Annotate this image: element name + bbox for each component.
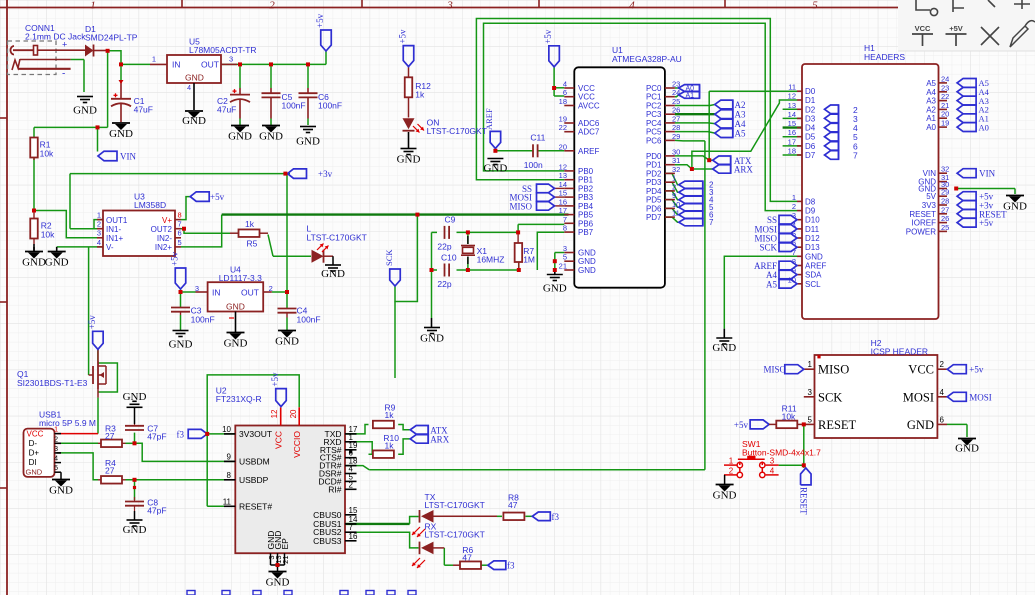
svg-text:18: 18 xyxy=(559,97,567,106)
svg-text:D6: D6 xyxy=(805,142,816,151)
svg-text:13: 13 xyxy=(559,171,567,180)
svg-text:D10: D10 xyxy=(805,216,820,225)
svg-text:11: 11 xyxy=(223,497,232,506)
svg-text:100nF: 100nF xyxy=(297,314,321,324)
svg-text:+5v: +5v xyxy=(969,365,984,375)
svg-text:OUT: OUT xyxy=(241,288,259,298)
svg-text:7: 7 xyxy=(709,218,714,227)
svg-text:LTST-C170GKT: LTST-C170GKT xyxy=(425,500,485,510)
svg-text:20: 20 xyxy=(289,409,298,418)
svg-text:4: 4 xyxy=(187,85,191,92)
svg-text:GND: GND xyxy=(275,336,299,348)
svg-text:HEADERS: HEADERS xyxy=(864,52,905,62)
svg-text:27: 27 xyxy=(105,466,115,476)
svg-text:VCC: VCC xyxy=(908,363,934,377)
svg-text:15: 15 xyxy=(788,119,796,128)
svg-text:R5: R5 xyxy=(247,239,258,249)
svg-text:21: 21 xyxy=(941,101,949,110)
svg-text:3V3: 3V3 xyxy=(922,201,937,210)
svg-text:17: 17 xyxy=(788,137,796,146)
svg-text:OUT1: OUT1 xyxy=(106,216,128,225)
svg-text:2: 2 xyxy=(269,0,275,12)
svg-text:+5v: +5v xyxy=(210,192,225,202)
svg-text:V+: V+ xyxy=(162,216,172,225)
svg-text:+5v: +5v xyxy=(979,218,994,228)
svg-text:D11: D11 xyxy=(805,225,820,234)
svg-text:31: 31 xyxy=(672,156,680,165)
svg-text:16: 16 xyxy=(559,197,567,206)
svg-text:A5: A5 xyxy=(926,79,936,88)
svg-text:VCC: VCC xyxy=(578,84,595,93)
svg-text:GND: GND xyxy=(578,257,596,266)
svg-text:1k: 1k xyxy=(385,410,395,420)
svg-text:IN1-: IN1- xyxy=(106,225,121,234)
svg-text:DI: DI xyxy=(29,458,37,467)
svg-text:AREF: AREF xyxy=(805,262,826,271)
svg-text:ICSP HEADER: ICSP HEADER xyxy=(871,347,928,357)
svg-text:MISO: MISO xyxy=(509,201,532,211)
svg-text:3: 3 xyxy=(54,446,58,453)
svg-text:+5v: +5v xyxy=(87,315,97,330)
svg-text:GND: GND xyxy=(296,136,320,148)
svg-text:26: 26 xyxy=(941,214,949,223)
svg-text:1k: 1k xyxy=(245,219,255,229)
svg-text:RESET: RESET xyxy=(799,487,809,515)
svg-text:3: 3 xyxy=(195,284,199,293)
svg-text:D+: D+ xyxy=(29,449,40,458)
svg-text:21: 21 xyxy=(559,262,567,271)
svg-text:VCCIO: VCCIO xyxy=(292,431,302,458)
svg-text:GND: GND xyxy=(578,266,596,275)
svg-text:PB2: PB2 xyxy=(578,184,594,193)
svg-text:GND: GND xyxy=(185,73,204,83)
svg-text:14: 14 xyxy=(788,110,796,119)
svg-text:GND: GND xyxy=(1003,201,1027,213)
svg-text:MOSI: MOSI xyxy=(969,392,992,402)
svg-text:100n: 100n xyxy=(524,160,543,170)
svg-text:PC1: PC1 xyxy=(646,93,662,102)
svg-text:29: 29 xyxy=(672,132,680,141)
svg-text:+5v: +5v xyxy=(270,372,280,387)
svg-text:1: 1 xyxy=(792,193,796,202)
svg-text:27: 27 xyxy=(941,205,949,214)
svg-text:4: 4 xyxy=(97,238,101,247)
svg-text:4: 4 xyxy=(940,388,945,397)
svg-text:4: 4 xyxy=(629,0,635,12)
svg-text:20: 20 xyxy=(559,142,567,151)
svg-text:D13: D13 xyxy=(805,243,820,252)
svg-text:PD0: PD0 xyxy=(646,152,662,161)
svg-text:PB7: PB7 xyxy=(578,228,594,237)
svg-text:C9: C9 xyxy=(445,215,456,225)
svg-text:GND: GND xyxy=(73,105,97,117)
svg-text:1: 1 xyxy=(808,360,813,369)
svg-text:GND: GND xyxy=(907,418,934,432)
svg-text:GND: GND xyxy=(266,577,290,589)
svg-text:RI#: RI# xyxy=(328,484,342,494)
svg-text:D0: D0 xyxy=(805,87,816,96)
svg-text:f3: f3 xyxy=(507,561,515,571)
svg-text:A5: A5 xyxy=(766,279,777,289)
svg-text:SCK: SCK xyxy=(818,390,842,404)
svg-text:ARX: ARX xyxy=(734,165,754,175)
svg-text:GND: GND xyxy=(955,443,979,455)
svg-text:47uF: 47uF xyxy=(217,105,236,115)
svg-text:IN2-: IN2- xyxy=(157,234,172,243)
svg-text:D4: D4 xyxy=(805,124,816,133)
svg-text:GND: GND xyxy=(169,339,193,351)
svg-text:V-: V- xyxy=(106,243,114,252)
svg-text:ADC7: ADC7 xyxy=(578,128,600,137)
svg-text:18: 18 xyxy=(788,147,796,156)
svg-text:8: 8 xyxy=(563,224,567,233)
svg-text:D3: D3 xyxy=(805,114,816,123)
svg-text:GND: GND xyxy=(182,115,206,127)
svg-text:GND: GND xyxy=(397,154,421,166)
svg-text:GND: GND xyxy=(483,163,507,175)
svg-text:1: 1 xyxy=(97,211,101,220)
svg-text:+5v: +5v xyxy=(543,29,553,44)
svg-text:27: 27 xyxy=(105,431,115,441)
svg-text:47uF: 47uF xyxy=(134,105,153,115)
svg-text:SCL: SCL xyxy=(805,280,821,289)
svg-text:SCK: SCK xyxy=(384,249,394,266)
svg-text:VIN: VIN xyxy=(979,169,995,179)
svg-text:GND: GND xyxy=(226,302,245,312)
svg-text:MISO: MISO xyxy=(818,363,849,377)
svg-text:21: 21 xyxy=(281,556,290,564)
svg-text:PD3: PD3 xyxy=(646,178,662,187)
svg-text:1k: 1k xyxy=(415,90,425,100)
svg-text:1: 1 xyxy=(729,457,734,466)
svg-text:4: 4 xyxy=(563,80,567,89)
svg-text:PC0: PC0 xyxy=(646,84,662,93)
svg-text:5: 5 xyxy=(54,465,58,472)
svg-text:PB3: PB3 xyxy=(578,193,594,202)
svg-text:IOREF: IOREF xyxy=(912,219,937,228)
svg-text:47pF: 47pF xyxy=(147,506,166,516)
svg-text:100nF: 100nF xyxy=(191,314,215,324)
svg-text:+5v: +5v xyxy=(170,251,180,266)
svg-text:2: 2 xyxy=(672,182,676,191)
svg-text:LTST-C170GKT: LTST-C170GKT xyxy=(307,233,367,243)
svg-text:4: 4 xyxy=(54,456,58,463)
svg-text:VCC: VCC xyxy=(27,430,44,439)
svg-text:PD6: PD6 xyxy=(646,204,662,213)
svg-text:15: 15 xyxy=(559,189,567,198)
svg-text:PD2: PD2 xyxy=(646,169,662,178)
svg-text:SI2301BDS-T1-E3: SI2301BDS-T1-E3 xyxy=(17,378,88,388)
svg-text:VCC: VCC xyxy=(274,431,284,449)
svg-text:+5v: +5v xyxy=(398,29,408,44)
svg-text:AVCC: AVCC xyxy=(578,102,600,111)
svg-text:3: 3 xyxy=(770,457,775,466)
svg-text:D1: D1 xyxy=(805,96,816,105)
svg-text:GND: GND xyxy=(228,131,252,143)
svg-text:5: 5 xyxy=(178,238,182,247)
svg-text:A2: A2 xyxy=(926,105,936,114)
svg-text:GND: GND xyxy=(123,524,147,536)
svg-text:32: 32 xyxy=(672,165,680,174)
svg-text:OUT2: OUT2 xyxy=(151,225,173,234)
svg-text:19: 19 xyxy=(941,119,949,128)
svg-text:100nF: 100nF xyxy=(282,101,306,111)
svg-text:14: 14 xyxy=(559,180,567,189)
svg-text:100nF: 100nF xyxy=(318,101,342,111)
svg-text:MOSI: MOSI xyxy=(903,390,934,404)
svg-text:USBDM: USBDM xyxy=(239,456,270,466)
svg-text:5: 5 xyxy=(812,0,818,12)
svg-text:RESET: RESET xyxy=(909,210,936,219)
svg-text:GND: GND xyxy=(22,257,46,269)
svg-text:GND: GND xyxy=(45,257,69,269)
svg-text:D2: D2 xyxy=(805,105,816,114)
svg-text:22p: 22p xyxy=(437,242,451,252)
svg-text:10k: 10k xyxy=(40,149,54,159)
svg-text:CBUS3: CBUS3 xyxy=(313,536,342,546)
svg-text:2: 2 xyxy=(269,284,273,293)
svg-text:GND: GND xyxy=(543,283,567,295)
svg-text:A4: A4 xyxy=(926,88,936,97)
svg-text:2: 2 xyxy=(940,360,945,369)
svg-text:22: 22 xyxy=(559,123,567,132)
svg-text:GND: GND xyxy=(578,249,596,258)
svg-text:1: 1 xyxy=(672,174,676,183)
svg-text:GND: GND xyxy=(259,131,283,143)
svg-text:22: 22 xyxy=(941,92,949,101)
svg-text:C11: C11 xyxy=(530,133,545,143)
svg-text:A1: A1 xyxy=(686,93,695,100)
svg-text:2: 2 xyxy=(97,220,101,229)
svg-text:OUT: OUT xyxy=(201,60,219,70)
svg-text:VCC: VCC xyxy=(578,93,595,102)
svg-text:VIN: VIN xyxy=(120,152,136,162)
svg-text:2: 2 xyxy=(792,202,796,211)
svg-text:A0: A0 xyxy=(979,122,989,132)
svg-text:3: 3 xyxy=(808,388,813,397)
svg-text:LTST-C170GKT: LTST-C170GKT xyxy=(427,126,487,136)
svg-text:GND: GND xyxy=(712,342,736,354)
svg-text:6: 6 xyxy=(178,229,182,238)
svg-text:4: 4 xyxy=(770,467,775,476)
svg-text:RESET#: RESET# xyxy=(239,501,272,511)
svg-text:30: 30 xyxy=(672,147,680,156)
svg-text:15: 15 xyxy=(349,506,358,515)
svg-text:3: 3 xyxy=(229,55,233,64)
svg-text:47: 47 xyxy=(508,500,518,510)
svg-text:f3: f3 xyxy=(177,429,185,439)
svg-text:1k: 1k xyxy=(385,441,395,451)
svg-text:A5: A5 xyxy=(735,129,746,139)
svg-text:7: 7 xyxy=(563,215,567,224)
svg-text:A2: A2 xyxy=(735,100,746,110)
svg-text:Button-SMD-4x4x1.7: Button-SMD-4x4x1.7 xyxy=(742,448,821,458)
svg-text:ARX: ARX xyxy=(430,435,450,445)
svg-text:+5V: +5V xyxy=(949,24,963,33)
svg-text:SCK: SCK xyxy=(759,243,777,253)
svg-text:PB1: PB1 xyxy=(578,176,594,185)
svg-text:D9: D9 xyxy=(805,207,816,216)
svg-text:GND: GND xyxy=(805,252,823,261)
svg-text:GND: GND xyxy=(26,467,43,476)
svg-text:PB6: PB6 xyxy=(578,219,594,228)
svg-text:PD5: PD5 xyxy=(646,196,662,205)
svg-text:PB5: PB5 xyxy=(578,211,594,220)
svg-text:+5v: +5v xyxy=(734,420,749,430)
svg-text:GND: GND xyxy=(224,338,248,350)
svg-text:L78M05ACDT-TR: L78M05ACDT-TR xyxy=(189,45,257,55)
svg-text:POWER: POWER xyxy=(906,227,936,236)
svg-text:7: 7 xyxy=(178,220,182,229)
svg-text:10k: 10k xyxy=(782,412,796,422)
svg-text:LM358D: LM358D xyxy=(134,200,166,210)
svg-text:9: 9 xyxy=(672,191,676,200)
svg-text:5: 5 xyxy=(563,253,567,262)
svg-text:ATMEGA328P-AU: ATMEGA328P-AU xyxy=(612,54,682,64)
svg-text:A0: A0 xyxy=(926,123,936,132)
svg-text:D7: D7 xyxy=(805,151,816,160)
svg-text:17: 17 xyxy=(559,206,567,215)
svg-text:8: 8 xyxy=(227,471,232,480)
svg-text:A3: A3 xyxy=(926,97,936,106)
svg-text:2: 2 xyxy=(729,467,734,476)
svg-text:LTST-C170GKT: LTST-C170GKT xyxy=(425,530,485,540)
svg-text:23: 23 xyxy=(941,83,949,92)
svg-text:25: 25 xyxy=(941,223,949,232)
svg-text:11: 11 xyxy=(672,209,680,218)
svg-text:7: 7 xyxy=(853,151,858,161)
svg-text:6: 6 xyxy=(563,88,567,97)
svg-text:PD7: PD7 xyxy=(646,213,662,222)
svg-text:USBDP: USBDP xyxy=(239,475,269,485)
svg-text:29: 29 xyxy=(941,188,949,197)
svg-text:47: 47 xyxy=(462,553,472,563)
svg-text:10: 10 xyxy=(222,425,231,434)
svg-text:PD4: PD4 xyxy=(646,187,662,196)
svg-text:PB4: PB4 xyxy=(578,202,594,211)
svg-text:19: 19 xyxy=(559,115,567,124)
svg-text:2: 2 xyxy=(54,436,58,443)
svg-text:IN: IN xyxy=(212,288,221,298)
svg-text:1: 1 xyxy=(152,55,156,64)
svg-text:2.1mm DC Jack: 2.1mm DC Jack xyxy=(25,32,86,42)
svg-text:1M: 1M xyxy=(523,255,535,265)
svg-text:5V: 5V xyxy=(926,192,936,201)
svg-text:f3: f3 xyxy=(552,512,560,522)
svg-text:12: 12 xyxy=(270,409,279,418)
svg-text:SDA: SDA xyxy=(805,271,822,280)
svg-text:27: 27 xyxy=(672,114,680,123)
svg-text:A4: A4 xyxy=(735,119,746,129)
svg-text:3V3OUT: 3V3OUT xyxy=(239,429,272,439)
svg-text:AREF: AREF xyxy=(578,147,599,156)
svg-text:22p: 22p xyxy=(437,279,451,289)
svg-text:FT231XQ-R: FT231XQ-R xyxy=(216,394,262,404)
svg-text:3: 3 xyxy=(563,244,567,253)
svg-text:9: 9 xyxy=(227,452,232,461)
svg-text:5: 5 xyxy=(808,415,813,424)
svg-text:D8: D8 xyxy=(805,197,816,206)
svg-text:47pF: 47pF xyxy=(147,432,166,442)
svg-text:10k: 10k xyxy=(41,230,55,240)
svg-text:LD1117-3.3: LD1117-3.3 xyxy=(219,273,262,283)
svg-text:13: 13 xyxy=(788,101,796,110)
svg-text:EP: EP xyxy=(280,538,290,550)
svg-text:PC5: PC5 xyxy=(646,128,662,137)
svg-text:24: 24 xyxy=(941,74,949,83)
svg-text:D5: D5 xyxy=(805,133,816,142)
svg-text:16MHZ: 16MHZ xyxy=(477,255,505,265)
svg-text:RESET: RESET xyxy=(818,418,857,432)
svg-text:12: 12 xyxy=(559,162,567,171)
svg-text:MISO: MISO xyxy=(763,365,786,375)
svg-text:GND: GND xyxy=(123,391,147,403)
svg-text:16: 16 xyxy=(788,128,796,137)
svg-text:26: 26 xyxy=(672,106,680,115)
svg-text:20: 20 xyxy=(941,110,949,119)
svg-text:D-: D- xyxy=(29,439,38,448)
svg-text:28: 28 xyxy=(672,123,680,132)
svg-text:+5v: +5v xyxy=(315,13,325,28)
svg-text:-: - xyxy=(62,69,65,80)
svg-text:25: 25 xyxy=(672,97,680,106)
svg-text:8: 8 xyxy=(178,211,182,220)
svg-text:PD1: PD1 xyxy=(646,161,662,170)
svg-text:IN1+: IN1+ xyxy=(106,234,123,243)
svg-text:2: 2 xyxy=(349,480,354,489)
svg-text:ADC6: ADC6 xyxy=(578,119,600,128)
svg-text:6: 6 xyxy=(940,415,945,424)
svg-text:11: 11 xyxy=(788,83,796,92)
svg-text:+: + xyxy=(62,40,67,50)
svg-text:PC2: PC2 xyxy=(646,102,662,111)
svg-text:C10: C10 xyxy=(441,253,457,263)
svg-text:3: 3 xyxy=(446,0,453,12)
svg-text:PC6: PC6 xyxy=(646,136,662,145)
svg-text:VCC: VCC xyxy=(915,24,931,33)
svg-text:micro 5P 5.9 M: micro 5P 5.9 M xyxy=(39,418,96,428)
svg-text:PB0: PB0 xyxy=(578,167,594,176)
svg-text:SMD24PL-TP: SMD24PL-TP xyxy=(85,33,138,43)
svg-text:IN2+: IN2+ xyxy=(155,243,172,252)
svg-text:+3v: +3v xyxy=(318,169,333,179)
svg-text:GND: GND xyxy=(420,333,444,345)
svg-text:GND: GND xyxy=(321,268,345,280)
svg-text:1: 1 xyxy=(90,0,96,12)
svg-text:28: 28 xyxy=(941,197,949,206)
svg-text:GND: GND xyxy=(713,490,737,502)
svg-text:12: 12 xyxy=(788,92,796,101)
svg-text:A1: A1 xyxy=(926,114,936,123)
svg-text:16: 16 xyxy=(349,532,358,541)
svg-text:IN: IN xyxy=(172,60,181,70)
svg-text:PC4: PC4 xyxy=(646,119,662,128)
svg-text:GND: GND xyxy=(49,485,73,497)
svg-text:D12: D12 xyxy=(805,234,820,243)
svg-text:3: 3 xyxy=(97,229,101,238)
svg-text:PC3: PC3 xyxy=(646,110,662,119)
svg-text:GND: GND xyxy=(109,128,133,140)
